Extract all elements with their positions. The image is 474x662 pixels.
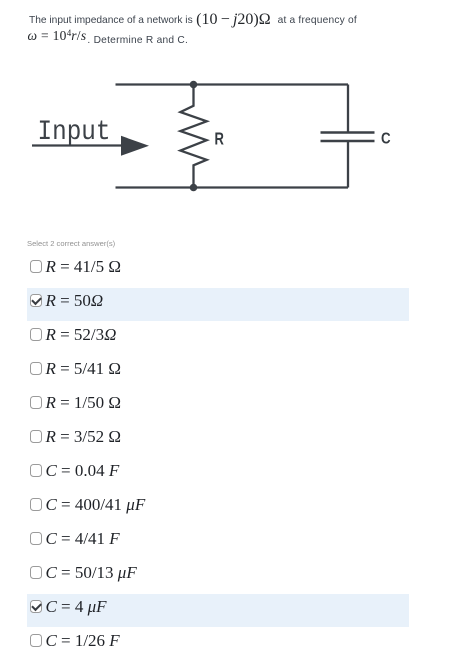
input arrowhead <box>121 136 149 156</box>
options <box>27 254 474 662</box>
wire: bottom horizontal <box>116 186 349 188</box>
svg-text:Input: Input <box>38 117 111 148</box>
select label <box>27 239 115 248</box>
capacitor C plates <box>321 133 375 142</box>
node: bottom junction dot <box>190 184 198 192</box>
input arrow shaft <box>32 144 126 146</box>
question text line 2 <box>29 31 188 47</box>
question text line 1 <box>29 10 357 28</box>
resistor R zigzag <box>180 85 206 188</box>
node: top junction dot <box>190 81 198 89</box>
svg-text:R: R <box>215 128 225 148</box>
wire: right vertical upper (to capacitor) <box>347 85 349 133</box>
wire: top horizontal <box>116 83 349 85</box>
wire: right vertical lower (from capacitor) <box>347 141 349 188</box>
circuit schematic <box>0 0 474 230</box>
svg-text:C: C <box>381 130 391 147</box>
